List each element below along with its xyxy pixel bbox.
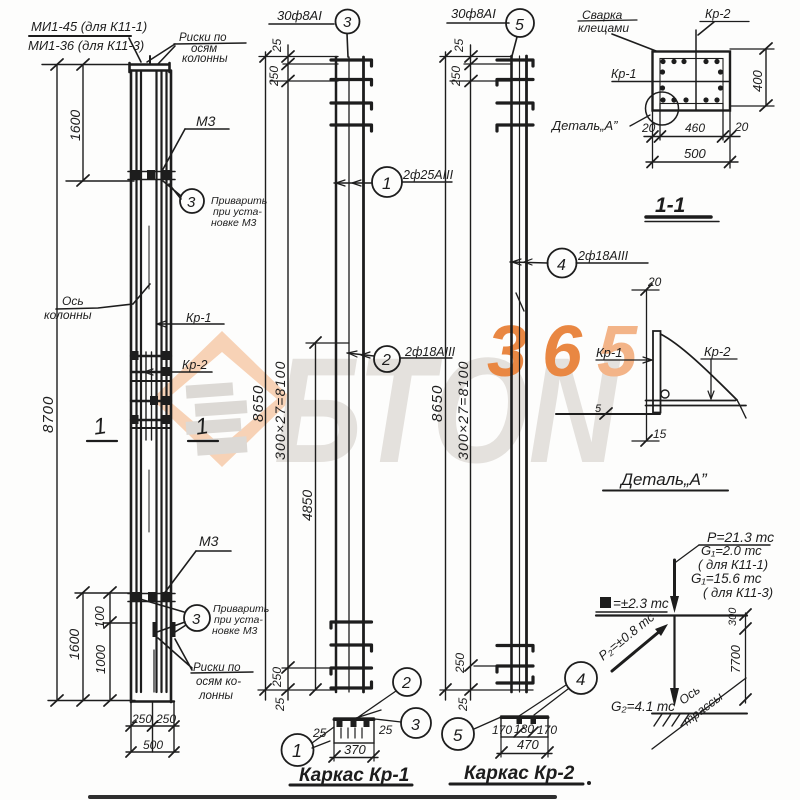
section mark 1 right underline — [188, 440, 218, 442]
callout circle 3 lower — [184, 605, 210, 631]
cage1 bottom tie 3 — [331, 668, 372, 674]
svg-text:500: 500 — [684, 146, 706, 161]
rebar line d — [160, 71, 162, 692]
svg-text:Ось: Ось — [62, 294, 84, 308]
svg-text:1000: 1000 — [93, 644, 108, 674]
callout circle 2 section — [393, 668, 421, 696]
tick 1600 top b — [77, 175, 89, 186]
label 2f18AIII mid — [404, 345, 456, 359]
detA Kp-1 arrow — [643, 357, 652, 363]
svg-text:8650: 8650 — [250, 385, 267, 422]
callout circle 1 cage1 — [372, 167, 402, 197]
detA dim 20 text — [647, 275, 662, 289]
dim line 100 — [109, 593, 111, 623]
cage2 bar mid kink — [516, 293, 524, 311]
detA Kp-2 arrow — [708, 391, 714, 399]
detA dim line vertical — [646, 290, 648, 441]
svg-text:Каркас Кр-2: Каркас Кр-2 — [464, 763, 575, 784]
Kp-2 leader arrow — [144, 369, 153, 375]
cage2 text 250 top — [449, 66, 463, 87]
splice row 6 — [131, 427, 171, 429]
section Kp1 ext verticals — [334, 743, 374, 761]
svg-text:4: 4 — [576, 670, 585, 689]
cage2 dim text 8650 — [429, 385, 446, 422]
dim 4850 text — [299, 490, 315, 521]
svarka underline — [578, 20, 637, 21]
svg-text:25: 25 — [452, 38, 466, 53]
svg-text:2ф18АIII: 2ф18АIII — [404, 345, 456, 359]
Kp-2 leader line — [144, 371, 212, 373]
tick 8700 top — [51, 59, 63, 70]
svg-text:Кр-2: Кр-2 — [704, 344, 731, 359]
leaders riski bottom — [158, 638, 192, 670]
tick 100 a — [104, 587, 116, 598]
M3 top underline — [185, 128, 229, 130]
riski bottom underline — [191, 672, 253, 673]
column outer edge left — [130, 71, 133, 703]
tick 8700 bottom — [51, 695, 63, 706]
svg-text:1600: 1600 — [66, 629, 82, 660]
section mark 1 right — [194, 412, 210, 440]
M3 plate row bottom lines — [128, 594, 175, 602]
section Kp1 rect — [334, 718, 374, 743]
svg-text:G₁=15.6 тс: G₁=15.6 тс — [691, 571, 762, 586]
ground hatches — [654, 714, 689, 726]
bottom extension verticals under column — [131, 702, 174, 752]
svg-text:М3: М3 — [199, 533, 219, 549]
P2 text — [595, 609, 657, 663]
svg-text:30ф8АI: 30ф8АI — [277, 8, 322, 23]
svg-text:2ф18АIII: 2ф18АIII — [577, 249, 629, 263]
section Kp2 bar squares — [517, 718, 537, 724]
dim 300 text — [727, 607, 739, 626]
P2 arrow — [612, 631, 660, 671]
cage2 top tie 4 — [497, 125, 533, 131]
section Kp1 dim ticks — [329, 751, 379, 762]
column mark text MI1-45 — [31, 19, 147, 34]
section Kp2 dim ticks — [496, 747, 553, 758]
label 2f18AIII cage2 underline — [576, 262, 648, 264]
note text riski top — [179, 32, 228, 65]
text 500 sec11 — [684, 146, 706, 161]
title Karkas Kp-2 — [464, 763, 575, 784]
section Kp1 dim line — [330, 757, 378, 759]
callout circle 3 section — [401, 708, 431, 738]
rebar line b — [140, 71, 142, 692]
svg-text:400: 400 — [750, 70, 765, 92]
rebar dots — [660, 59, 723, 103]
beam top line — [596, 614, 747, 616]
svg-text:370: 370 — [344, 742, 366, 757]
dim 400 text — [750, 70, 765, 92]
cage1 bottom tie 1 — [331, 622, 372, 628]
splice row 2 — [131, 371, 171, 373]
leader circle3 section — [375, 719, 401, 722]
cage2 bottom tie 2 — [497, 666, 533, 672]
cage1 dim text 300x27 — [272, 360, 288, 460]
load P underline — [699, 544, 770, 546]
rebar line a — [135, 71, 137, 692]
cage1 dim line 300x27 — [287, 45, 289, 700]
cage2 ext top a — [440, 56, 512, 58]
title Kp-2 dot — [587, 781, 591, 785]
column axis segment lower — [148, 470, 150, 532]
svg-text:=±2.3 тс: =±2.3 тс — [613, 596, 669, 611]
svg-text:5: 5 — [515, 17, 524, 34]
svg-text:250: 250 — [449, 66, 463, 87]
detA Kp-1 leader — [596, 359, 652, 361]
svg-text:25: 25 — [456, 697, 470, 712]
M3 bottom underline — [196, 550, 231, 552]
ground line — [652, 713, 747, 715]
detA Kp-2 label — [704, 344, 731, 359]
splice ladder extra verticals — [146, 352, 152, 440]
section Kp2 text 470 — [517, 737, 539, 752]
svg-text:1: 1 — [292, 741, 302, 761]
column stem line — [673, 616, 675, 688]
section Kp2 texts 170 130 170 — [492, 722, 557, 737]
note riski bottom — [193, 662, 241, 702]
detA gusset hypotenuse — [661, 334, 738, 400]
cage2 dim line 8650 — [445, 52, 447, 700]
detA plate — [653, 331, 661, 413]
svg-text:G₁=2.0 тс: G₁=2.0 тс — [701, 543, 762, 558]
section Kp1 text 25 right — [378, 723, 393, 737]
M3 top leader — [162, 129, 185, 171]
cage2 bar mid — [519, 56, 521, 692]
leaders circle2 section — [353, 691, 396, 719]
leaders circle1 section — [312, 727, 334, 748]
cage2 text 25 top — [452, 38, 466, 53]
detA title — [619, 470, 708, 489]
splice row 5 squares — [132, 415, 171, 424]
leader circle4 to bars with arrows — [510, 262, 548, 263]
Kp-1 leader arrow — [157, 321, 166, 327]
section 1-1 inner rect — [660, 59, 723, 104]
cage2 ext bottom a — [474, 665, 514, 667]
dim text 8700 — [40, 396, 57, 433]
cage1 bar left — [335, 57, 338, 692]
detA top tick — [641, 284, 652, 295]
callout circle 4 cage2 — [548, 249, 577, 278]
svg-text:8700: 8700 — [40, 396, 57, 433]
detA Kp-2 leader — [701, 359, 737, 399]
leader riski to cap mid — [158, 46, 175, 64]
column mark text MI1-36 — [28, 38, 144, 53]
svg-text:колонны: колонны — [182, 53, 228, 65]
dim 500 ticks sec11 — [647, 157, 736, 168]
cage1 top tie 3 — [331, 103, 372, 109]
svg-text:3: 3 — [487, 312, 527, 392]
Kp-2 label top — [705, 7, 730, 21]
ticks 250 row — [126, 721, 179, 731]
rebar line c — [155, 71, 157, 692]
callout circle 3 cage1 — [336, 10, 360, 34]
leader circle3 to bars — [347, 34, 348, 58]
Kp-2 label underline — [700, 21, 749, 23]
load G1 texts — [691, 543, 773, 600]
weld note upper — [211, 195, 267, 229]
cage1 bar mid — [348, 57, 350, 692]
ticks 500 row — [126, 747, 179, 757]
cage Kp2 label 30f8AI — [451, 6, 496, 21]
splice row 1 squares — [132, 351, 171, 360]
detA Kp-1 label — [596, 345, 622, 360]
M moment blob — [600, 597, 611, 608]
svg-text:250: 250 — [155, 712, 176, 726]
dim text 1600 top — [67, 110, 83, 141]
svg-text:170: 170 — [492, 723, 512, 737]
dim 400 line — [765, 49, 767, 106]
svg-text:1: 1 — [382, 174, 391, 193]
leaders circle3 lower — [140, 599, 186, 634]
tick 1600 bottom a — [77, 587, 89, 598]
cage2 dim line 300x27 — [470, 45, 472, 700]
svg-text:Деталь„А”: Деталь„А” — [550, 118, 618, 133]
fraction line — [29, 35, 131, 37]
splice row 4 — [131, 400, 171, 402]
svg-text:Кр-1: Кр-1 — [611, 67, 636, 81]
column bottom end line — [131, 700, 174, 702]
extension line y181 — [66, 180, 134, 182]
detA title underline — [603, 490, 728, 492]
svg-text:300: 300 — [727, 607, 739, 626]
Kp-2 label leader — [698, 22, 714, 35]
dim line 8700 — [56, 65, 58, 700]
Kp-1 label left — [611, 67, 636, 81]
label 2f18AIII cage2 — [577, 249, 629, 263]
svg-text:30ф8АI: 30ф8АI — [451, 6, 496, 21]
svg-text:4: 4 — [557, 257, 566, 274]
cage1 top tie 2 — [331, 80, 372, 86]
cage1 bottom tie 4 — [331, 682, 372, 688]
svg-text:лонны: лонны — [198, 690, 234, 702]
cage2 top tie 2 — [497, 80, 533, 86]
cage Kp1 label underline — [269, 23, 334, 25]
sec11 bottom ext verticals — [653, 104, 731, 169]
G2 arrow head — [670, 688, 679, 707]
svg-text:100: 100 — [92, 606, 107, 628]
dim text 1600 bottom — [66, 629, 82, 660]
axis label leader — [56, 284, 150, 309]
section mark 1 left underline — [87, 440, 117, 442]
detA top tick line — [632, 289, 659, 291]
cage2 bar right — [525, 56, 528, 692]
svg-text:170: 170 — [537, 723, 557, 737]
column outer edge right — [170, 71, 173, 703]
dim line 250-250 — [126, 725, 179, 727]
detA bolt — [661, 390, 669, 398]
section Kp1 bar squares — [337, 720, 370, 727]
detA weld size 5 — [595, 403, 602, 415]
detA bottom tick — [641, 435, 652, 446]
svg-text:20: 20 — [641, 121, 656, 135]
bottom baseline — [48, 700, 135, 702]
svg-text:4850: 4850 — [299, 490, 315, 521]
Kp-1 label on column — [186, 311, 211, 325]
svg-text:G₂=4.1 тс: G₂=4.1 тс — [611, 699, 675, 714]
leader circle1 to bars with arrows — [334, 182, 372, 184]
svg-text:8650: 8650 — [429, 385, 446, 422]
detA weld tick — [600, 408, 612, 419]
cage2 ext top b — [464, 63, 512, 65]
title Kp-1 underline — [290, 784, 412, 787]
svg-text:2: 2 — [401, 675, 411, 692]
cage1 ext top b — [283, 63, 338, 65]
cage1 dim line 8650 — [265, 52, 267, 700]
dim 400 ticks — [760, 43, 772, 111]
leader circle3 to plate row — [163, 181, 181, 199]
svg-text:500: 500 — [143, 738, 163, 752]
svg-text:новке М3: новке М3 — [212, 625, 258, 637]
M3 bottom leader — [163, 551, 196, 595]
svg-text:5: 5 — [453, 726, 463, 745]
svarka leader — [612, 34, 656, 51]
svg-text:6: 6 — [542, 312, 583, 392]
detA dim 15 text — [653, 427, 667, 441]
svg-text:( для К11-1): ( для К11-1) — [698, 557, 768, 572]
cage Kp2 label underline — [447, 22, 509, 24]
cage2 ext bottom b — [440, 689, 533, 691]
dim line 500 — [126, 751, 179, 753]
cage2 bottom ticks — [440, 660, 477, 695]
bottom scan artifact — [90, 795, 555, 799]
P force arrow — [673, 560, 676, 598]
svg-text:новке М3: новке М3 — [211, 217, 257, 229]
extension line y593 — [75, 592, 131, 594]
svg-text:колонны: колонны — [44, 308, 92, 322]
title 1-1 underline thin — [645, 221, 719, 223]
splice row 5 — [131, 419, 171, 421]
cage2 text 250 bottom — [453, 653, 467, 674]
dim 20-460-20 line — [644, 136, 740, 138]
label 2f25AIII — [402, 168, 454, 182]
dim 4850 ext top — [306, 342, 349, 344]
cage1 bottom tie 2 — [331, 645, 372, 651]
tick 1600 top a — [77, 59, 89, 70]
detail A label — [550, 118, 618, 133]
svg-text:5: 5 — [595, 403, 602, 415]
cage1 bar right — [362, 57, 365, 692]
section Kp1 inner marks — [341, 728, 362, 738]
callout circle 1 section — [282, 734, 314, 766]
detA gusset right break — [737, 400, 746, 418]
cage1 bottom ticks — [260, 662, 294, 695]
svg-text:460: 460 — [685, 121, 705, 135]
extension line y623 — [103, 622, 137, 624]
right dim ticks — [740, 609, 751, 705]
right dim line — [745, 613, 747, 703]
cage1 ext top c — [270, 80, 338, 82]
dim 4850 line — [315, 343, 317, 690]
callout circle 5 cage2 — [506, 9, 534, 37]
cage Kp1 label 30f8AI — [277, 8, 322, 23]
svg-text:470: 470 — [517, 737, 539, 752]
cage2 top ticks — [440, 51, 477, 87]
svg-text:25: 25 — [270, 38, 284, 53]
svg-text:25: 25 — [273, 697, 287, 712]
svg-text:( для К11-3): ( для К11-3) — [703, 585, 773, 600]
callout circle 2 cage1 — [374, 346, 400, 372]
splice row 4 blobs — [150, 396, 171, 405]
axis riska tick on cap — [149, 56, 151, 64]
section Kp2 ext verticals — [501, 737, 548, 757]
leader circle5 to bars — [512, 37, 517, 56]
svg-text:Кр-2: Кр-2 — [705, 7, 730, 21]
svg-text:Деталь„А”: Деталь„А” — [619, 470, 708, 489]
svg-text:250: 250 — [453, 653, 467, 674]
M text — [613, 596, 669, 611]
top extension line — [42, 64, 131, 66]
detA base plate lines — [646, 401, 747, 406]
cage1 ext bottom a — [282, 667, 336, 669]
svg-text:3: 3 — [192, 611, 201, 628]
svg-text:20: 20 — [734, 120, 749, 134]
rebar line e — [165, 71, 167, 692]
section Kp-1 cage line horizontal — [612, 81, 730, 83]
section Kp-2 cage line vertical — [695, 30, 697, 111]
M underline — [596, 611, 667, 613]
section Kp1 top thick edge — [334, 718, 374, 721]
svg-text:1-1: 1-1 — [655, 194, 685, 217]
dim 500 line sec11 — [646, 161, 738, 163]
callout circle 4 section — [565, 662, 597, 694]
title Karkas Kp-1 — [299, 765, 409, 786]
tick 100 b — [104, 617, 116, 628]
M3 plate row top blobs — [132, 170, 171, 180]
column top cap plate — [130, 63, 170, 72]
texts 250 250 — [131, 712, 176, 726]
svg-text:Кр-1: Кр-1 — [186, 311, 211, 325]
svg-text:1600: 1600 — [67, 110, 83, 141]
section 1-1 outer rect — [653, 52, 731, 111]
splice row 3 — [131, 380, 171, 382]
detA bottom tick line — [632, 440, 659, 442]
leader riski to cap left — [147, 44, 175, 62]
dim text 1000 — [93, 644, 108, 674]
label M3 top — [196, 113, 216, 129]
section Kp2 rect — [501, 716, 548, 737]
M3 plate row top lines — [128, 172, 175, 180]
leader from mark text to column top — [129, 38, 141, 62]
cage1 top tie 4 — [331, 125, 372, 131]
weld note lower — [212, 603, 269, 637]
dim 400 extensions — [730, 49, 774, 106]
section Kp2 dim line — [497, 753, 552, 755]
svg-text:Кр-1: Кр-1 — [596, 345, 622, 360]
section mark 1 left — [92, 412, 108, 440]
svg-text:М3: М3 — [196, 113, 216, 129]
dim 20-460-20 ticks — [647, 131, 736, 142]
cage1 dim text 8650 — [250, 385, 267, 422]
cage2 dim text 300x27 — [455, 360, 471, 460]
svg-text:МИ1-36 (для К11-3): МИ1-36 (для К11-3) — [28, 38, 144, 53]
Kp-2 label on column — [182, 358, 207, 372]
dim text 100 — [92, 606, 107, 628]
dim line 1000 — [109, 623, 111, 700]
svg-text:3: 3 — [343, 14, 352, 31]
section Kp2 inner ticks — [514, 727, 538, 737]
label 2f25AIII underline — [402, 181, 452, 183]
svg-text:Кр-2: Кр-2 — [182, 358, 207, 372]
cage1 ext top a — [259, 56, 338, 58]
text 500 — [143, 738, 163, 752]
title 1-1 underline thick — [646, 215, 711, 219]
cage1 text 250 top — [267, 66, 281, 87]
svg-text:клещами: клещами — [578, 21, 629, 35]
Kp-1 leader line — [157, 323, 224, 325]
section Kp1 text 25 left — [312, 726, 327, 740]
